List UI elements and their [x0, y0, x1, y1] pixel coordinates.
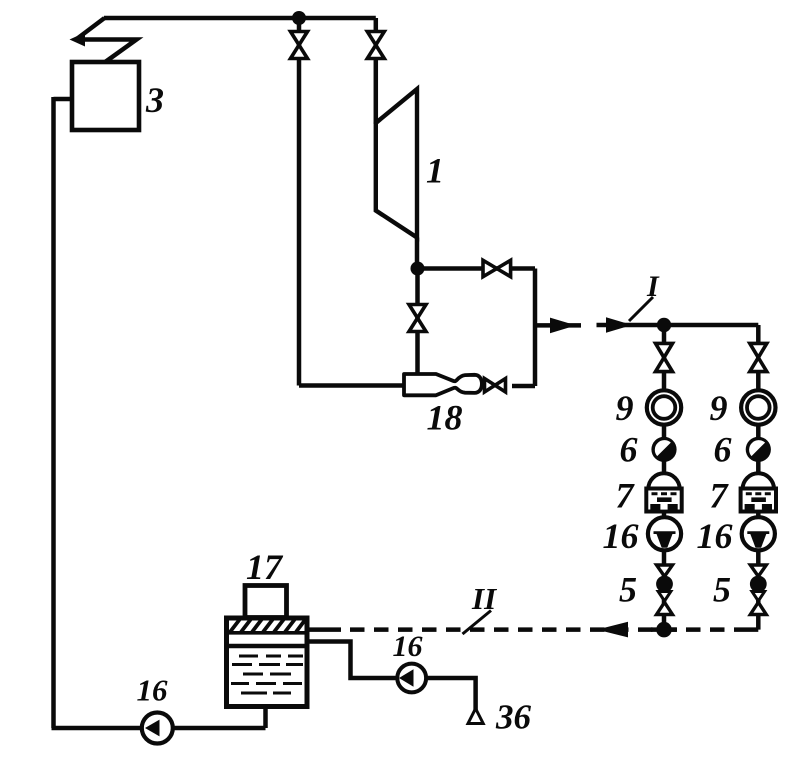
boiler 3: [72, 62, 139, 130]
leader line II: [463, 611, 492, 635]
tank body: [227, 618, 308, 707]
valve: branch 2: [750, 343, 767, 357]
svg-text:1: 1: [426, 151, 444, 191]
node: line I junction: [657, 318, 671, 332]
wire: down to ejector: [415, 269, 420, 376]
device 6 branch 1: [651, 437, 676, 462]
wire: tank to drain pump: [307, 642, 398, 679]
wire: line II dashed: [350, 627, 745, 632]
control valve 5 branch 2: [750, 565, 767, 615]
arrow: line II flow: [597, 622, 628, 638]
ejector 18: [404, 374, 482, 395]
valve: after ejector: [485, 379, 496, 393]
valve: branch 1: [656, 343, 673, 357]
tank water dashes: [231, 656, 303, 693]
pump 16 branch 2: [742, 517, 775, 550]
svg-text:7: 7: [616, 476, 636, 516]
svg-text:16: 16: [697, 516, 733, 556]
meter 9 branch 1: [647, 390, 681, 424]
node: branch 1 on line II: [656, 622, 672, 638]
svg-text:17: 17: [246, 547, 284, 587]
node: steam header junction: [292, 11, 306, 25]
wire: feedwater downcomer: [52, 97, 266, 728]
wire: bypass loop top: [418, 266, 536, 271]
svg-text:3: 3: [145, 80, 164, 120]
tank divider line: [227, 644, 308, 648]
wire: turbine exhaust: [415, 238, 420, 269]
wire: line II solid stub from tank: [307, 627, 341, 632]
arrow: flow into boiler: [70, 33, 86, 47]
wire: drain line down from header: [299, 18, 404, 386]
turbine 1: [376, 89, 417, 238]
wire: line I to consumers: [597, 323, 759, 328]
valve: bypass top: [483, 260, 497, 276]
control valve 5 branch 1: [656, 565, 673, 615]
svg-text:7: 7: [710, 476, 730, 516]
pump 16 branch 1: [648, 517, 681, 550]
wire: pump to drain: [426, 678, 476, 710]
wire: line II solid at junction: [651, 627, 677, 632]
svg-text:16: 16: [137, 673, 169, 708]
device 6 branch 2: [746, 437, 771, 462]
svg-text:16: 16: [603, 516, 639, 556]
wire: consumer branch 2: [745, 325, 759, 630]
svg-text:I: I: [646, 270, 660, 303]
svg-text:II: II: [471, 581, 497, 616]
wire: steam to turbine: [374, 18, 379, 124]
node: exhaust junction: [411, 262, 425, 276]
valve: turbine stop valve: [367, 32, 384, 46]
svg-text:16: 16: [393, 630, 423, 663]
pump 16 at tank: [397, 664, 426, 693]
svg-text:5: 5: [713, 570, 731, 610]
svg-text:6: 6: [620, 430, 638, 470]
drain funnel 36: [468, 709, 483, 724]
svg-text:6: 6: [714, 430, 732, 470]
meter 9 branch 2: [741, 390, 775, 424]
wire: consumer branch 1: [662, 325, 667, 630]
svg-text:36: 36: [495, 698, 532, 737]
wire: zigzag break to boiler: [76, 18, 137, 63]
trap 7 branch 1: [646, 473, 681, 511]
wire: steam outlet with arrow: [535, 323, 581, 328]
svg-text:18: 18: [427, 398, 463, 438]
tank hatch cover 17: [245, 586, 287, 618]
svg-text:5: 5: [619, 570, 637, 610]
trap 7 branch 2: [741, 473, 776, 511]
tank hatch band: [227, 619, 308, 633]
leader line I: [629, 297, 653, 321]
svg-text:9: 9: [616, 388, 634, 428]
svg-text:9: 9: [710, 388, 728, 428]
wire: bypass loop bottom: [512, 384, 535, 389]
valve on drain line: [291, 32, 308, 46]
wire: bypass loop right: [533, 269, 538, 387]
valve: before ejector: [409, 305, 426, 319]
pump 16 bottom: [142, 713, 173, 744]
wire: main steam header: [104, 16, 376, 21]
